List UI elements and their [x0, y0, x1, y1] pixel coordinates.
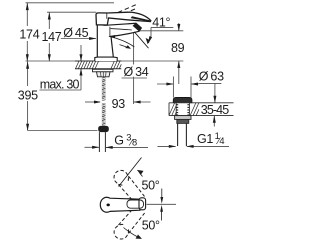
- svg-text:max. 30: max. 30: [40, 78, 80, 92]
- svg-text:50°: 50°: [142, 178, 160, 192]
- svg-text:395: 395: [18, 88, 38, 102]
- svg-text:50°: 50°: [142, 218, 160, 232]
- svg-text:93: 93: [112, 97, 126, 111]
- svg-text:Ø 34: Ø 34: [124, 65, 149, 79]
- svg-text:89: 89: [171, 41, 185, 55]
- svg-text:41°: 41°: [152, 15, 170, 29]
- svg-text:Ø 63: Ø 63: [199, 69, 224, 83]
- svg-text:147: 147: [42, 30, 62, 44]
- svg-text:G1: G1: [197, 132, 213, 146]
- svg-text:174: 174: [19, 28, 39, 42]
- svg-text:⁄8: ⁄8: [129, 138, 137, 148]
- svg-text:35-45: 35-45: [201, 103, 229, 117]
- svg-text:⁄4: ⁄4: [216, 136, 224, 146]
- svg-text:G: G: [114, 134, 123, 148]
- svg-text:Ø 45: Ø 45: [63, 26, 88, 40]
